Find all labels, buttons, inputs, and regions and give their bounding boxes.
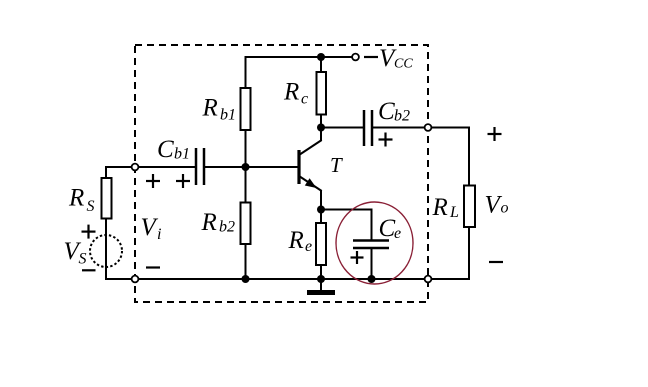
wire: Ce top lead	[371, 209, 373, 241]
polarity + of VS	[82, 225, 96, 239]
label RS	[68, 185, 95, 216]
svg-text:c: c	[301, 91, 308, 108]
wire: emitter node to Ce branch	[320, 209, 372, 211]
svg-text:T: T	[330, 153, 343, 177]
polarity + of CE	[351, 251, 364, 264]
node: collector junction	[317, 124, 325, 132]
transistor T	[299, 140, 322, 191]
svg-text:R: R	[288, 227, 304, 254]
wire: output terminal to RL top	[428, 127, 469, 129]
wire: Rb1 bottom to Rb2 top	[245, 130, 247, 203]
svg-text:C: C	[378, 98, 395, 125]
terminal: output top	[425, 124, 432, 131]
resistor RC	[317, 72, 327, 115]
svg-text:i: i	[157, 226, 161, 243]
terminal: input bottom	[132, 276, 139, 283]
resistor RB2	[241, 203, 251, 245]
wire: RL branch vertical bottom	[468, 227, 470, 280]
svg-text:L: L	[449, 204, 459, 221]
label CB1	[157, 136, 190, 163]
label CB2	[378, 98, 410, 125]
svg-text:S: S	[79, 251, 87, 268]
polarity - of VS	[82, 269, 96, 271]
wire: Re top lead	[320, 209, 322, 223]
label RE	[288, 227, 313, 255]
polarity + of CB2	[379, 133, 393, 147]
svg-text:C: C	[157, 136, 174, 163]
svg-text:S: S	[87, 198, 95, 215]
resistor RL	[464, 186, 475, 228]
wire: Rb2 bottom lead	[245, 244, 247, 280]
label RL	[432, 194, 460, 221]
node: Ce bottom junction	[368, 275, 376, 283]
wire: Rs to Vs and through source circle to bottom	[105, 218, 107, 280]
svg-text:b2: b2	[219, 219, 235, 236]
wire: Cb2 to output terminal	[372, 127, 428, 129]
wire: collector node to Cb2	[321, 127, 364, 129]
ground	[307, 290, 335, 295]
svg-text:R: R	[201, 209, 217, 236]
polarity + of CB1	[176, 174, 190, 188]
wire: Rb1 top lead	[245, 56, 247, 88]
svg-text:e: e	[394, 225, 401, 242]
resistor RE	[316, 223, 326, 265]
wire: ground stub	[320, 279, 322, 291]
wire: left source branch vertical	[105, 166, 107, 178]
node: ground junction	[317, 275, 325, 283]
polarity - of VI	[146, 266, 160, 268]
resistor RS	[102, 178, 112, 219]
wire: Re bottom lead	[320, 265, 322, 280]
label RC	[283, 79, 308, 108]
capacitor CB2	[364, 110, 372, 146]
node: Rb2 bottom junction	[242, 275, 250, 283]
wire: Cb1 to base	[204, 166, 299, 168]
capacitor CB1	[196, 148, 204, 185]
polarity - of VO	[489, 261, 503, 263]
wire: emitter vertical to node	[320, 190, 322, 210]
wire: Rc bottom to collector node	[320, 115, 322, 142]
svg-text:R: R	[202, 95, 218, 122]
resistor RB1	[241, 88, 251, 130]
svg-text:R: R	[68, 185, 84, 212]
label VS	[64, 238, 87, 268]
label VCC with minus tick	[364, 45, 413, 72]
polarity + of VI	[146, 174, 160, 188]
capacitor CE	[353, 241, 389, 249]
wire: input node horizontal (source to Cb1)	[105, 166, 196, 168]
wire: bottom common rail	[105, 278, 469, 280]
label RB1	[202, 95, 237, 124]
label CE	[379, 215, 402, 242]
terminal: output bottom	[425, 276, 432, 283]
polarity + of VO	[488, 127, 502, 141]
svg-text:R: R	[283, 79, 299, 106]
source VS circle	[90, 235, 122, 267]
svg-text:b1: b1	[174, 146, 190, 163]
terminal: VCC	[352, 54, 359, 61]
svg-text:e: e	[305, 238, 312, 255]
wire: RL branch vertical top	[468, 127, 470, 186]
label VI	[141, 214, 162, 243]
node: base junction	[242, 163, 250, 171]
wire: Ce bottom lead	[371, 248, 373, 280]
svg-text:CC: CC	[394, 57, 413, 72]
svg-text:b1: b1	[220, 107, 236, 124]
amplifier boundary dashed box	[135, 45, 428, 302]
label VO	[485, 192, 509, 219]
terminal: input top	[132, 164, 139, 171]
label RB2	[201, 209, 236, 236]
svg-text:C: C	[379, 215, 396, 242]
svg-text:b2: b2	[394, 108, 410, 125]
svg-text:o: o	[501, 200, 509, 217]
node: top rail / RC junction	[317, 53, 325, 61]
wire: VCC top rail	[245, 56, 352, 58]
wire: Rc top lead	[320, 56, 322, 72]
svg-text:R: R	[432, 194, 448, 221]
node: emitter junction	[317, 206, 325, 214]
red highlight ellipse around CE	[336, 202, 413, 284]
